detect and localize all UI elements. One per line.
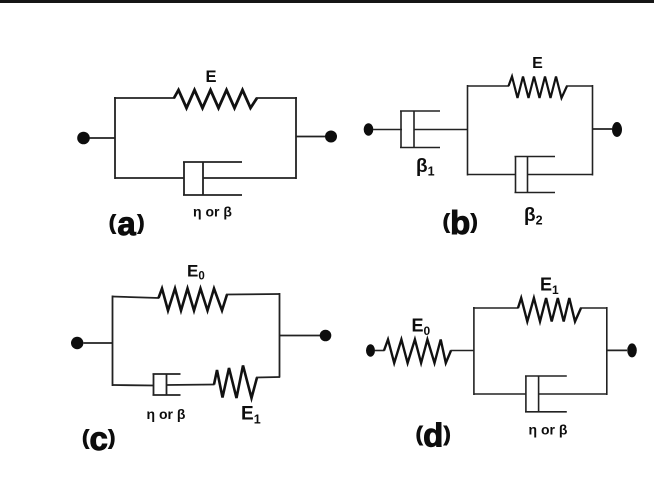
spring E0 (c) bbox=[159, 289, 228, 311]
wire dashpot rod to right vertical (a) bbox=[203, 177, 296, 179]
wire right vertical (d) bbox=[606, 307, 608, 395]
svg-text:η or β: η or β bbox=[147, 406, 186, 422]
wire left vertical (c) bbox=[112, 296, 114, 387]
wire bottom-left (c) bbox=[113, 384, 155, 387]
terminal right (d) bbox=[627, 343, 637, 357]
wire right vertical (c) bbox=[279, 293, 281, 378]
svg-text:E: E bbox=[205, 68, 216, 86]
dashpot eta-or-beta (a) bbox=[183, 162, 242, 195]
spring E1 (d) bbox=[518, 298, 581, 322]
terminal left (d) bbox=[366, 344, 375, 356]
wire left vertical (d) bbox=[473, 307, 475, 395]
spring E1 (c) bbox=[214, 366, 257, 399]
wire bottom-left (b) bbox=[468, 174, 517, 176]
wire left vertical (a) bbox=[114, 97, 116, 179]
wire dashpot rod to right vertical (d) bbox=[539, 393, 607, 395]
wire bottom-left (d) bbox=[474, 393, 527, 395]
wire spring to right vertical (c) bbox=[256, 376, 280, 379]
wire top-right (a) bbox=[256, 97, 297, 99]
svg-text:η or β: η or β bbox=[529, 422, 568, 438]
wire dashpot rod to right vertical (b) bbox=[528, 174, 593, 176]
terminal right (a) bbox=[325, 131, 337, 143]
dashpot B2 (b) bbox=[515, 157, 556, 193]
spring E0 (d) bbox=[384, 340, 451, 364]
terminal right (c) bbox=[320, 330, 332, 342]
wire top-left (b) bbox=[467, 85, 509, 87]
wire left vertical (b) bbox=[467, 85, 469, 176]
dashpot eta-or-beta (d) bbox=[525, 376, 567, 412]
wire box to right terminal (b) bbox=[593, 128, 613, 130]
top border rule bbox=[0, 0, 654, 3]
wire top-left (d) bbox=[473, 307, 519, 309]
wire top-left (c) bbox=[112, 297, 159, 299]
wire top-right (c) bbox=[226, 293, 280, 296]
terminal left (a) bbox=[77, 132, 90, 145]
svg-text:E: E bbox=[532, 55, 543, 72]
terminal left (b) bbox=[364, 123, 374, 135]
wire top-right (b) bbox=[566, 85, 593, 87]
wire left terminal to spring (d) bbox=[375, 350, 385, 352]
wire box to right terminal (a) bbox=[296, 136, 325, 138]
dashpot eta-or-beta (c) bbox=[153, 374, 181, 396]
wire dashpot rod to spring (c) bbox=[167, 384, 215, 387]
wire bottom-left (a) bbox=[115, 177, 184, 179]
wire top-right (d) bbox=[580, 307, 608, 309]
terminal left (c) bbox=[71, 337, 83, 349]
wire box to right terminal (d) bbox=[607, 349, 627, 351]
wire right vertical (a) bbox=[295, 97, 297, 179]
wire dashpot rod to box (b) bbox=[414, 129, 468, 131]
dashpot B1 (b) bbox=[400, 111, 440, 148]
wire left terminal to box (a) bbox=[90, 137, 116, 139]
terminal right (b) bbox=[612, 122, 622, 137]
wire left terminal to dashpot (b) bbox=[373, 129, 402, 131]
spring E (a) bbox=[174, 90, 257, 108]
wire left terminal to box (c) bbox=[84, 342, 114, 344]
wire right vertical (b) bbox=[592, 85, 594, 176]
svg-text:η or β: η or β bbox=[193, 204, 232, 220]
wire spring to box (d) bbox=[451, 350, 475, 352]
spring E (b) bbox=[509, 77, 568, 99]
wire box to right terminal (c) bbox=[280, 335, 321, 337]
wire top-left (a) bbox=[114, 97, 175, 99]
